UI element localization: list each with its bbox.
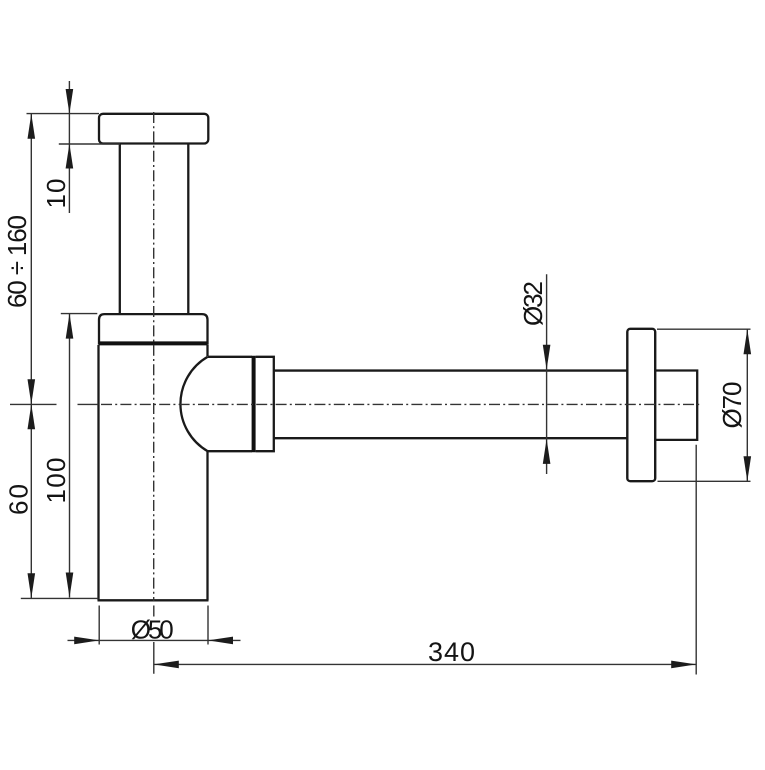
dim Ø32 arrow up bbox=[543, 439, 551, 464]
dim 10 arrow down bbox=[66, 89, 74, 114]
coupling nut bbox=[256, 357, 274, 451]
dim 340 arrow right bbox=[671, 661, 696, 669]
dim Ø70 extension top bbox=[657, 328, 751, 330]
dim Ø50 arrow right bbox=[208, 637, 233, 645]
svg-text:340: 340 bbox=[428, 637, 475, 667]
dim 60÷160 line bbox=[30, 114, 32, 405]
dim Ø70 line bbox=[746, 329, 748, 481]
dim Ø70 extension bottom bbox=[658, 480, 751, 482]
dim 60 arrow down bbox=[28, 573, 36, 598]
dim Ø32 arrow down bbox=[543, 345, 551, 370]
dim 10 line bbox=[68, 81, 70, 213]
dim Ø50 extension left bbox=[98, 606, 100, 645]
dim 100 line bbox=[69, 314, 71, 598]
dim 100 arrow up bbox=[66, 314, 74, 339]
dim Ø50 arrow left bbox=[74, 637, 99, 645]
centerline vertical bbox=[153, 112, 155, 601]
dim 10 arrow up bbox=[66, 144, 74, 169]
extension line cap top bbox=[27, 113, 100, 115]
svg-text:10: 10 bbox=[41, 179, 71, 209]
dim Ø50 extension right bbox=[207, 606, 209, 645]
centerline horizontal left solid segments bbox=[10, 403, 99, 405]
riser cap nut bbox=[99, 114, 208, 144]
svg-text:60 ÷ 160: 60 ÷ 160 bbox=[2, 215, 32, 308]
dim 340 extension left (center) bbox=[153, 606, 155, 674]
elbow thick divider bbox=[252, 356, 256, 452]
dim Ø70 arrow up bbox=[744, 329, 752, 354]
svg-text:100: 100 bbox=[41, 458, 71, 504]
body top nut bbox=[99, 314, 208, 345]
dim 340 extension right bbox=[695, 445, 697, 675]
svg-text:Ø70: Ø70 bbox=[717, 382, 747, 429]
svg-text:60: 60 bbox=[4, 484, 34, 515]
extension line body bottom bbox=[21, 597, 99, 599]
dim Ø50 line bbox=[68, 639, 241, 641]
dim 60 arrow up bbox=[28, 404, 36, 429]
svg-text:Ø50: Ø50 bbox=[131, 614, 174, 644]
extension line body nut top bbox=[61, 313, 98, 315]
elbow outlet bbox=[208, 357, 252, 451]
elbow ball joint arc bbox=[180, 357, 207, 451]
horizontal pipe bbox=[274, 371, 628, 439]
wall pipe stub bbox=[655, 371, 697, 440]
bottle body bbox=[98, 345, 209, 600]
riser pipe bbox=[120, 144, 189, 314]
svg-text:Ø32: Ø32 bbox=[518, 281, 548, 326]
dim 60÷160 arrow up bbox=[28, 114, 36, 139]
extension line cap bottom bbox=[59, 143, 120, 145]
centerline horizontal bbox=[101, 403, 702, 405]
dim 60÷160 arrow down bbox=[28, 379, 36, 404]
dim Ø32 line bbox=[546, 274, 548, 474]
dim 60 line bbox=[30, 404, 32, 598]
dim 340 line bbox=[154, 663, 696, 665]
dim Ø70 arrow down bbox=[744, 456, 752, 481]
dim 100 arrow down bbox=[66, 573, 74, 598]
wall flange bbox=[627, 329, 655, 481]
dim 340 arrow left bbox=[154, 661, 179, 669]
body nut thick seam bbox=[99, 341, 208, 345]
